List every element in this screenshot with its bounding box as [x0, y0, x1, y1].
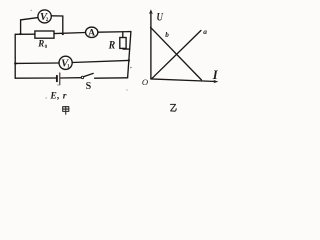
- resistor R0 box: [35, 31, 54, 38]
- svg-text:E, r: E, r: [49, 91, 67, 102]
- wire: V2 right stub: [51, 16, 63, 34]
- voltmeter V1: [59, 56, 72, 69]
- svg-text:U: U: [157, 10, 164, 24]
- speck left of E,r: [46, 97, 47, 98]
- battery E,r tall plate: [59, 73, 61, 85]
- wire: V2 left stub: [21, 18, 38, 34]
- battery E,r short plate: [56, 76, 58, 82]
- switch S lever: [84, 73, 94, 76]
- wire: switch to bottom-right corner: [95, 77, 128, 79]
- svg-text:I: I: [212, 68, 219, 82]
- wire: top wire right segment (corner to ammeter): [98, 31, 131, 34]
- voltmeter V2: [38, 10, 51, 23]
- node: V2 right junction: [62, 33, 64, 35]
- arrowhead I axis: [213, 80, 218, 84]
- label jia (Chinese): [63, 107, 69, 115]
- wire: top wire left segment: [15, 33, 35, 35]
- speck near switch: [130, 67, 132, 69]
- line b: [151, 27, 202, 80]
- wire: V1 branch left: [15, 62, 59, 64]
- wire: right vertical of outer loop: [128, 32, 131, 78]
- wire: bottom wire from left corner to battery: [15, 77, 56, 79]
- svg-text:a: a: [203, 27, 207, 36]
- wire: stub from top wire down to R: [122, 32, 124, 38]
- wire: top wire between R0 and ammeter: [54, 33, 86, 34]
- wire: V1 branch right: [72, 60, 129, 62]
- wire: R bottom connector to right vertical: [123, 47, 130, 50]
- speck below battery: [57, 84, 58, 85]
- svg-text:S: S: [86, 81, 92, 92]
- svg-text:R: R: [37, 38, 44, 48]
- line a: [152, 31, 201, 79]
- node: V1 right junction: [128, 59, 131, 62]
- svg-text:R: R: [108, 39, 116, 51]
- svg-text:A: A: [88, 28, 95, 38]
- wire: battery to switch: [60, 77, 81, 79]
- speck on left wire: [15, 57, 16, 58]
- node: V1 left junction: [14, 62, 17, 65]
- svg-text:b: b: [165, 31, 169, 39]
- node: V2 left junction: [19, 33, 21, 35]
- svg-text:0: 0: [45, 45, 48, 50]
- speck top: [31, 10, 32, 11]
- graph: I axis: [151, 79, 216, 82]
- wire: left vertical of outer loop: [14, 34, 16, 78]
- switch S pivot: [81, 76, 84, 79]
- label yi (Chinese): [170, 104, 176, 111]
- svg-text:O: O: [142, 77, 148, 87]
- resistor R box: [120, 38, 126, 49]
- speck below circuit right corner: [126, 89, 127, 90]
- arrowhead U axis: [149, 9, 153, 14]
- ammeter A: [86, 27, 98, 37]
- graph: U axis: [150, 11, 152, 79]
